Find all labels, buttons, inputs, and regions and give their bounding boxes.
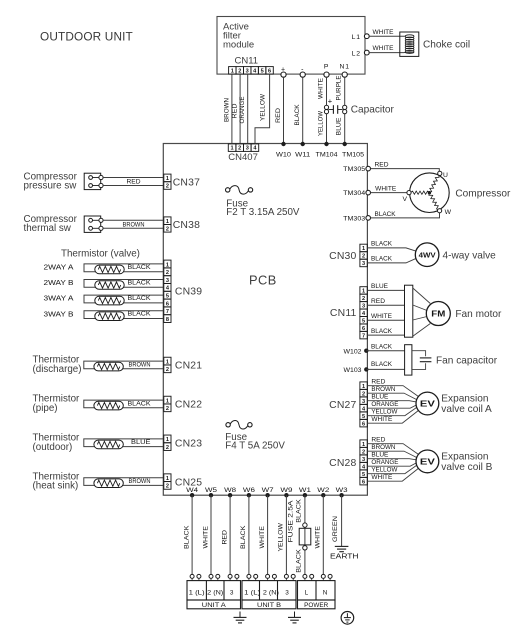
node W7 (262, 487, 274, 498)
wire BLACK W4 to terminal block (183, 495, 192, 576)
svg-text:2: 2 (166, 367, 169, 373)
wire RED CN11 to fan motor connector (367, 298, 404, 305)
thermistor 3WAY B loop wire (44, 309, 164, 318)
wire BLACK CN11 to fan motor connector (367, 328, 404, 335)
svg-text:BLACK: BLACK (295, 548, 302, 572)
svg-text:2 (N): 2 (N) (207, 590, 223, 597)
svg-text:W11: W11 (295, 151, 310, 158)
fan capacitor C2 (412, 351, 498, 370)
svg-text:2: 2 (238, 68, 241, 74)
svg-text:V: V (403, 196, 408, 203)
label Thermistor (valve) (61, 248, 140, 259)
wire BLACK CN30.3 to 4-way valve (367, 256, 416, 263)
svg-text:+: + (328, 97, 333, 106)
svg-text:W9: W9 (280, 487, 292, 494)
wire L1 WHITE to choke coil (369, 29, 404, 36)
wire BLACK W1 with fuse 2.5A (288, 495, 305, 576)
terminal block UNIT B (242, 581, 296, 609)
wire WHITE W2 to terminal block (315, 495, 324, 576)
earth symbol (330, 546, 359, 560)
node W8 (224, 487, 236, 498)
connector CN27 (329, 382, 367, 427)
svg-text:CN37: CN37 (173, 177, 200, 188)
svg-text:W6: W6 (243, 487, 255, 494)
svg-text:BLACK: BLACK (294, 104, 301, 126)
svg-text:(outdoor): (outdoor) (33, 442, 73, 453)
svg-text:POWER: POWER (304, 603, 329, 609)
svg-text:FUSE 2.5A: FUSE 2.5A (288, 499, 295, 542)
thermistor (heat sink) loop wire (84, 478, 164, 486)
svg-text:BLUE: BLUE (371, 451, 388, 458)
thermistor (discharge) element (94, 362, 123, 371)
connector CN21 (164, 357, 202, 373)
svg-text:3: 3 (362, 303, 365, 309)
wire RED CN28.1 to expansion valve B (367, 436, 418, 454)
svg-text:WHITE: WHITE (373, 45, 394, 52)
svg-text:2: 2 (362, 296, 365, 302)
svg-text:BROWN: BROWN (123, 222, 145, 229)
thermistor (pipe) element (94, 401, 123, 410)
label thermistor (discharge) (33, 355, 82, 375)
svg-text:CN407: CN407 (228, 152, 258, 163)
svg-text:3: 3 (230, 590, 234, 597)
choke coil L (400, 32, 470, 56)
wire ORANGE CN11.3 to CN407.3 (239, 74, 248, 144)
svg-text:BROWN: BROWN (129, 478, 151, 485)
svg-text:WHITE: WHITE (373, 29, 394, 36)
svg-text:2: 2 (166, 445, 169, 451)
node W102 (344, 348, 369, 355)
svg-text:2: 2 (362, 391, 365, 397)
compressor motor M1 (403, 171, 511, 216)
thermistor (pipe) loop wire (84, 400, 164, 408)
svg-text:2 (N): 2 (N) (263, 590, 279, 597)
svg-text:WHITE: WHITE (202, 526, 209, 549)
svg-text:module: module (223, 39, 254, 50)
svg-text:CN39: CN39 (175, 286, 202, 297)
svg-text:2: 2 (166, 270, 169, 276)
thermistor 2WAY A loop wire (44, 263, 164, 272)
wire BROWN switch to CN38 (103, 220, 163, 228)
svg-text:EARTH: EARTH (330, 552, 359, 561)
svg-text:CN27: CN27 (329, 400, 356, 411)
expansion valve coil B EV (416, 450, 493, 473)
wire RED + to W10 (275, 77, 284, 144)
svg-text:4: 4 (362, 464, 366, 470)
svg-text:1: 1 (166, 476, 169, 482)
svg-text:3: 3 (246, 146, 249, 152)
wire BLUE CN28.3 to expansion valve B (367, 451, 416, 460)
wire RED switch to CN37 (103, 178, 163, 186)
terminal block POWER (298, 581, 336, 609)
4-way valve coil (415, 243, 496, 267)
node TM104 (316, 142, 338, 159)
fuse F4 (225, 421, 285, 452)
node TM105 (342, 142, 364, 159)
compressor pressure switch S1 (24, 171, 104, 191)
svg-text:TM304: TM304 (343, 190, 365, 197)
svg-text:CN11: CN11 (330, 308, 357, 319)
svg-text:thermal sw: thermal sw (24, 223, 72, 234)
svg-text:2: 2 (362, 254, 365, 260)
fan motor FM (426, 302, 502, 326)
svg-text:BLACK: BLACK (375, 211, 397, 218)
svg-text:W7: W7 (262, 487, 274, 494)
thermistor (outdoor) loop wire (84, 439, 164, 447)
label thermistor (heat sink) (33, 471, 81, 491)
wire WHITE CN27.6 to expansion valve A (367, 411, 418, 424)
svg-text:1: 1 (166, 359, 169, 365)
fuse F2 (226, 186, 300, 218)
svg-text:Fan capacitor: Fan capacitor (436, 356, 498, 367)
svg-text:OUTDOOR UNIT: OUTDOOR UNIT (40, 30, 133, 44)
svg-text:3WAY B: 3WAY B (44, 309, 74, 318)
svg-text:CN30: CN30 (329, 251, 356, 262)
svg-text:BLACK: BLACK (183, 525, 190, 549)
svg-text:YELLOW: YELLOW (371, 408, 397, 415)
svg-text:PURPLE: PURPLE (336, 76, 343, 101)
fuse 2.5A on W1 (299, 523, 311, 550)
svg-text:ORANGE: ORANGE (371, 401, 398, 408)
svg-text:2: 2 (166, 406, 169, 412)
svg-text:YELLOW: YELLOW (260, 94, 267, 121)
svg-text:pressure sw: pressure sw (24, 181, 78, 192)
connector CN11 (active filter module) (229, 55, 274, 74)
svg-text:W10: W10 (276, 151, 291, 158)
svg-text:BROWN: BROWN (371, 386, 395, 393)
svg-text:2: 2 (238, 146, 241, 152)
wire RED W8 to terminal block (221, 495, 230, 576)
svg-text:3: 3 (362, 457, 365, 463)
terminal TM303 (343, 216, 370, 223)
thermistor 3WAY A loop wire (44, 294, 164, 303)
svg-text:7: 7 (362, 333, 365, 339)
svg-text:CN21: CN21 (175, 361, 202, 372)
svg-text:BLACK: BLACK (128, 280, 152, 287)
title OUTDOOR UNIT (40, 30, 133, 44)
svg-text:BLACK: BLACK (240, 525, 247, 549)
thermistor 3WAY B element (95, 312, 124, 321)
svg-text:YELLOW: YELLOW (278, 523, 285, 552)
svg-text:valve coil A: valve coil A (441, 404, 492, 415)
svg-text:BLACK: BLACK (128, 400, 152, 407)
fan capacitor connector block (405, 345, 412, 375)
svg-text:3WAY A: 3WAY A (44, 294, 74, 303)
svg-text:RED: RED (232, 103, 239, 119)
svg-text:6: 6 (268, 68, 271, 74)
svg-text:UNIT A: UNIT A (202, 603, 226, 609)
svg-text:Capacitor: Capacitor (351, 105, 395, 116)
thermistor 2WAY B loop wire (44, 278, 164, 287)
svg-text:BLACK: BLACK (371, 344, 393, 351)
thermistor (outdoor) element (94, 440, 123, 449)
svg-text:(heat sink): (heat sink) (33, 481, 79, 492)
svg-text:CN38: CN38 (173, 220, 200, 231)
svg-text:4: 4 (362, 406, 366, 412)
wire RED CN27.1 to expansion valve A (367, 378, 418, 396)
svg-text:L2: L2 (352, 51, 361, 58)
svg-text:BLUE: BLUE (371, 393, 388, 400)
wire WHITE W5 to terminal block (202, 495, 211, 576)
svg-text:ORANGE: ORANGE (239, 97, 246, 124)
svg-text:5: 5 (261, 68, 264, 74)
thermistor (discharge) loop wire (84, 361, 164, 369)
svg-text:BROWN: BROWN (224, 98, 231, 122)
svg-text:U: U (443, 172, 449, 179)
thermistor 2WAY B element (95, 281, 124, 290)
connector CN25 (164, 474, 202, 490)
svg-text:1 (L): 1 (L) (189, 590, 205, 597)
svg-text:7: 7 (166, 309, 169, 315)
svg-text:WHITE: WHITE (371, 313, 392, 320)
wire YELLOW W9 to terminal block (278, 495, 287, 576)
fan motor connector block (405, 285, 413, 337)
svg-text:3: 3 (246, 68, 249, 74)
svg-text:1: 1 (166, 219, 169, 225)
svg-text:BLACK: BLACK (371, 241, 393, 248)
svg-text:6: 6 (362, 421, 365, 427)
connector CN39 (164, 260, 202, 323)
connector CN407 (228, 144, 258, 163)
svg-text:2: 2 (362, 449, 365, 455)
wire BROWN CN28.2 to expansion valve B (367, 444, 416, 458)
svg-text:valve coil B: valve coil B (441, 462, 492, 473)
wire ORANGE CN28.4 to expansion valve B (367, 459, 416, 466)
capacitor C1 (324, 97, 394, 116)
svg-text:4: 4 (253, 68, 257, 74)
node W5 (205, 487, 217, 498)
node W9 (280, 487, 292, 498)
svg-text:BLUE: BLUE (131, 439, 151, 446)
terminal block UNIT A (187, 581, 241, 609)
wire BROWN CN27.2 to expansion valve A (367, 386, 416, 400)
wire L2 WHITE to choke coil (369, 45, 404, 52)
terminal + on module (281, 67, 286, 78)
svg-text:WHITE: WHITE (375, 185, 396, 192)
wire BLACK CN30.1 to 4-way valve (367, 241, 416, 252)
svg-text:6: 6 (362, 326, 365, 332)
svg-text:1: 1 (166, 176, 169, 182)
node W4 (186, 487, 198, 498)
svg-text:TM104: TM104 (316, 151, 338, 158)
svg-text:W103: W103 (344, 367, 362, 374)
thermistor (heat sink) element (94, 479, 123, 488)
svg-text:BLACK: BLACK (371, 361, 393, 368)
wire YELLOW CN28.5 to expansion valve B (367, 465, 416, 473)
node W3 (336, 487, 348, 498)
node W2 (317, 487, 329, 498)
svg-text:CN22: CN22 (175, 400, 202, 411)
svg-text:5: 5 (362, 318, 365, 324)
svg-text:BLACK: BLACK (128, 295, 152, 302)
svg-text:4: 4 (362, 311, 366, 317)
svg-text:TM305: TM305 (343, 166, 365, 173)
svg-text:WHITE: WHITE (317, 78, 324, 99)
wire BLACK - to W11 (294, 77, 303, 144)
wire RED CN11.2 to CN407.2 (232, 74, 241, 144)
svg-text:TM303: TM303 (343, 216, 365, 223)
wire ORANGE CN27.4 to expansion valve A (367, 401, 416, 408)
svg-text:BROWN: BROWN (371, 444, 395, 451)
svg-text:YELLOW: YELLOW (317, 111, 324, 136)
svg-text:RED: RED (371, 436, 385, 443)
svg-text:RED: RED (221, 530, 228, 545)
svg-text:W3: W3 (336, 487, 348, 494)
svg-text:Compressor: Compressor (455, 188, 511, 199)
svg-text:4: 4 (253, 146, 257, 152)
terminal TM304 (343, 190, 370, 197)
svg-text:W2: W2 (317, 487, 329, 494)
node W10 (276, 142, 291, 159)
terminal N1 on module (340, 64, 350, 78)
node W103 (344, 367, 369, 374)
svg-text:UNIT B: UNIT B (257, 603, 281, 609)
svg-text:TM105: TM105 (342, 151, 364, 158)
wire BLACK W102 to fan capacitor (366, 344, 404, 351)
svg-text:WHITE: WHITE (371, 474, 392, 481)
svg-text:WHITE: WHITE (371, 416, 392, 423)
svg-text:W4: W4 (186, 487, 198, 494)
wire RED TM305 to compressor U (371, 162, 440, 172)
svg-text:3: 3 (362, 261, 365, 267)
svg-text:1: 1 (231, 146, 234, 152)
svg-text:4WV: 4WV (419, 251, 436, 260)
svg-text:GREEN: GREEN (332, 515, 339, 542)
wire BROWN CN11.1 to CN407.1 (224, 74, 232, 144)
svg-text:RED: RED (275, 107, 282, 123)
svg-text:EV: EV (420, 458, 436, 467)
wire PURPLE/BLUE N1 to TM105 (336, 76, 345, 145)
wire YELLOW CN27.5 to expansion valve A (367, 407, 416, 415)
svg-text:BLUE: BLUE (371, 283, 388, 290)
svg-text:(pipe): (pipe) (33, 403, 58, 414)
svg-text:W102: W102 (344, 348, 362, 355)
svg-text:1: 1 (362, 442, 365, 448)
wire YELLOW CN11.6 to CN407.4 (255, 74, 270, 144)
connector CN37 (164, 174, 200, 190)
svg-text:1: 1 (362, 289, 365, 295)
svg-text:F4 T 5A 250V: F4 T 5A 250V (225, 440, 285, 451)
svg-text:ORANGE: ORANGE (371, 459, 398, 466)
svg-text:N1: N1 (340, 64, 350, 71)
svg-text:W5: W5 (205, 487, 217, 494)
svg-text:2WAY A: 2WAY A (44, 263, 74, 272)
wire WHITE TM304 to compressor V (371, 185, 407, 192)
svg-text:5: 5 (362, 472, 365, 478)
svg-text:4-way valve: 4-way valve (443, 250, 497, 261)
ground symbol unit B (288, 612, 301, 623)
svg-text:5: 5 (362, 414, 365, 420)
svg-text:BLACK: BLACK (371, 328, 393, 335)
svg-text:N: N (323, 590, 328, 597)
wire WHITE CN11 to fan motor connector (367, 313, 404, 320)
svg-text:1: 1 (362, 246, 365, 252)
node W11 (295, 142, 310, 159)
svg-text:1: 1 (166, 437, 169, 443)
svg-text:P: P (324, 64, 329, 71)
thermistor 3WAY A element (95, 296, 124, 305)
connector CN30 (329, 244, 367, 267)
svg-text:1: 1 (166, 262, 169, 268)
PCB board outline (163, 144, 367, 496)
svg-text:L1: L1 (352, 34, 361, 41)
wire BLACK W6 to terminal block (240, 495, 249, 576)
svg-text:1: 1 (166, 398, 169, 404)
svg-text:1 (L): 1 (L) (244, 590, 260, 597)
svg-text:BLACK: BLACK (295, 498, 302, 522)
svg-text:WHITE: WHITE (315, 526, 322, 549)
wire BLUE CN27.3 to expansion valve A (367, 393, 416, 402)
svg-text:PCB: PCB (249, 273, 277, 288)
wire WHITE CN28.6 to expansion valve B (367, 468, 418, 481)
svg-text:CN28: CN28 (329, 458, 356, 469)
wire BLUE CN11 to fan motor connector (367, 283, 404, 290)
terminal L2 on module (352, 50, 370, 57)
svg-text:BLUE: BLUE (336, 118, 343, 136)
svg-text:3: 3 (285, 590, 289, 597)
svg-text:8: 8 (166, 317, 169, 323)
connector CN38 (164, 217, 200, 233)
wire WHITE/YELLOW P to TM104 (317, 77, 326, 144)
terminal - on module (300, 67, 305, 78)
svg-text:L: L (305, 590, 309, 597)
svg-text:W8: W8 (224, 487, 236, 494)
svg-text:2: 2 (166, 227, 169, 233)
wire WHITE W7 to terminal block (259, 495, 268, 576)
svg-text:6: 6 (166, 301, 169, 307)
node W6 (243, 487, 255, 498)
svg-text:4: 4 (166, 286, 170, 292)
svg-text:1: 1 (231, 68, 234, 74)
svg-text:BLACK: BLACK (371, 256, 393, 263)
connector CN11 (PCB) (330, 287, 367, 340)
svg-text:3: 3 (166, 278, 169, 284)
svg-text:RED: RED (371, 378, 385, 385)
svg-text:EV: EV (420, 400, 436, 409)
ground symbol unit A (234, 612, 247, 623)
svg-text:1: 1 (362, 384, 365, 390)
expansion valve coil A EV (416, 392, 492, 415)
svg-text:WHITE: WHITE (259, 526, 266, 549)
svg-text:BLACK: BLACK (128, 311, 152, 318)
svg-text:(discharge): (discharge) (33, 364, 82, 375)
svg-text:2WAY B: 2WAY B (44, 278, 74, 287)
svg-text:W: W (445, 209, 452, 216)
fan motor leads (413, 288, 431, 336)
connector CN22 (164, 396, 202, 412)
svg-text:Thermistor (valve): Thermistor (valve) (61, 248, 140, 259)
wire BLACK TM303 to compressor W (371, 211, 440, 218)
svg-text:RED: RED (127, 179, 141, 186)
svg-text:5: 5 (166, 294, 169, 300)
wire GREEN W3 to earth (332, 495, 341, 546)
svg-text:RED: RED (375, 162, 389, 169)
active filter module box (217, 17, 365, 75)
wire BLACK W103 to fan capacitor (366, 361, 404, 369)
node W1 (299, 487, 311, 498)
terminal TM305 (343, 166, 370, 173)
terminal L1 on module (352, 34, 370, 41)
protective earth symbol (341, 612, 354, 625)
svg-text:BLACK: BLACK (128, 264, 152, 271)
terminal block screws (190, 574, 332, 580)
svg-text:Choke coil: Choke coil (423, 39, 470, 50)
svg-text:BROWN: BROWN (129, 361, 151, 368)
connector CN28 (329, 440, 367, 485)
svg-text:3: 3 (362, 399, 365, 405)
svg-text:Fan motor: Fan motor (455, 309, 502, 320)
thermistor 2WAY A element (95, 265, 124, 274)
